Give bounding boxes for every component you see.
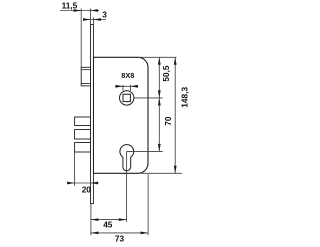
svg-text:8X8: 8X8 bbox=[121, 71, 134, 80]
latch bolt bbox=[81, 67, 90, 86]
extension line: latch tip (top) bbox=[80, 9, 82, 68]
dimension 45 bbox=[91, 218, 126, 230]
svg-text:45: 45 bbox=[103, 220, 113, 230]
extension line: faceplate front (bottom 45/73) bbox=[90, 204, 92, 236]
euro cylinder hole bbox=[120, 145, 134, 171]
dimension 11,5 bbox=[60, 0, 99, 12]
extension line: case top plane (right) bbox=[138, 56, 177, 58]
svg-text:3: 3 bbox=[102, 9, 107, 19]
extension line: faceplate front (for dim 20) bbox=[90, 173, 92, 186]
dimension 3 bbox=[83, 9, 107, 21]
extension line: cylinder axis (bottom) bbox=[126, 151, 128, 222]
extension line: case rear (bottom) bbox=[147, 174, 149, 235]
deadbolt lamination 1 bbox=[75, 117, 91, 126]
extension line: faceplate rear (top) bbox=[92, 17, 94, 24]
faceplate bbox=[91, 25, 94, 204]
dimension 73 bbox=[91, 232, 148, 244]
svg-text:148,3: 148,3 bbox=[179, 87, 189, 108]
extension line: spindle center (right) bbox=[134, 97, 163, 99]
dimension 50,5 bbox=[158, 57, 171, 98]
svg-text:20: 20 bbox=[82, 184, 92, 194]
svg-text:70: 70 bbox=[163, 116, 173, 126]
deadbolt lamination 3 bbox=[75, 143, 91, 153]
deadbolt lamination 2 bbox=[75, 130, 91, 140]
spindle square hole 8x8 bbox=[123, 94, 130, 101]
dimension 8X8 (spindle square) bbox=[115, 71, 138, 91]
extension line: cylinder center (right) bbox=[127, 150, 163, 152]
extension line: deadbolt tip (bottom) bbox=[74, 152, 76, 186]
lock case bbox=[93, 57, 148, 173]
dimension 148,3 bbox=[174, 57, 190, 173]
extension line: case bottom plane (right) bbox=[138, 172, 182, 174]
extension line: faceplate front (top) bbox=[90, 9, 92, 25]
svg-text:73: 73 bbox=[115, 233, 125, 243]
dimension 70 bbox=[158, 98, 173, 151]
svg-text:50,5: 50,5 bbox=[161, 65, 171, 82]
spindle follower circle bbox=[120, 91, 134, 105]
dimension 20 bbox=[67, 182, 99, 195]
svg-text:11,5: 11,5 bbox=[62, 0, 78, 10]
